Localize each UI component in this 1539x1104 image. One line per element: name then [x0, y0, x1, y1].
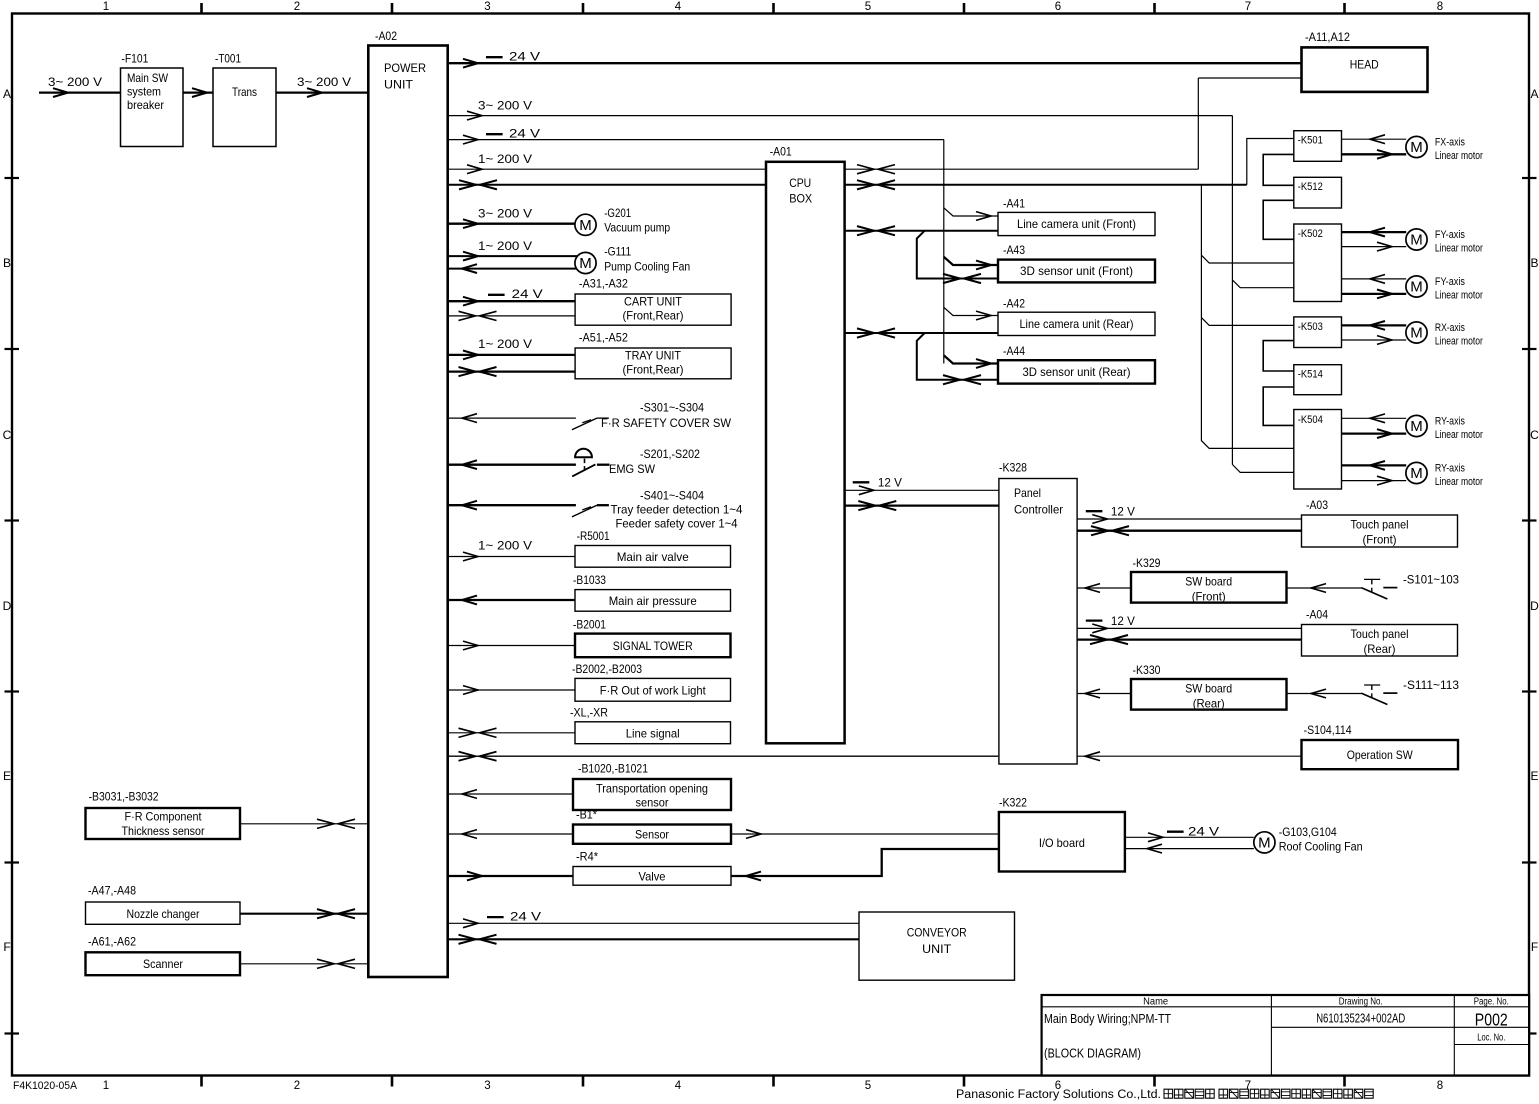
- amp K514: [1294, 365, 1342, 395]
- svg-text:3: 3: [484, 1, 490, 13]
- wire cart unit signal: [448, 315, 575, 317]
- ruler column ticks top: [200, 3, 203, 15]
- riser vertical 1198 to HEAD: [1197, 78, 1199, 169]
- svg-text:6: 6: [1055, 1, 1061, 13]
- svg-text:(Front): (Front): [1363, 532, 1397, 546]
- wire line signal: [448, 732, 575, 734]
- wire thickness sensor to A02: [240, 823, 368, 825]
- bus vertical 1232 3~200V: [1231, 116, 1233, 465]
- svg-text:-A51,-A52: -A51,-A52: [579, 331, 628, 345]
- wire power rail A02 to CPU box: [448, 184, 766, 186]
- switch S201 S202 emergency stop: [575, 449, 592, 457]
- svg-text:(Front,Rear): (Front,Rear): [623, 309, 684, 323]
- wire K503 to K514 chain: [1263, 341, 1294, 371]
- svg-text:M: M: [1410, 279, 1423, 296]
- wire CPU branch to A44: [917, 333, 998, 380]
- wire K514 to K504 chain: [1263, 387, 1294, 425]
- wire 1~200V to tray unit: [448, 354, 575, 356]
- svg-text:A: A: [1530, 87, 1538, 101]
- svg-text:3~ 200 V: 3~ 200 V: [478, 99, 532, 113]
- svg-text:-B3031,-B3032: -B3031,-B3032: [89, 790, 159, 804]
- amp K512: [1294, 177, 1342, 208]
- svg-text:SW board: SW board: [1185, 575, 1232, 589]
- wire CPU branch to A43: [917, 231, 998, 279]
- svg-text:M: M: [579, 217, 592, 234]
- svg-text:RY-axis: RY-axis: [1435, 462, 1465, 474]
- svg-text:CPU: CPU: [789, 176, 811, 190]
- wire 12V to touch panel front: [1077, 518, 1301, 520]
- motor G103 G104 roof cooling fan: [1254, 832, 1275, 853]
- svg-text:F·R SAFETY COVER SW: F·R SAFETY COVER SW: [601, 416, 732, 430]
- wire transportation opening sensor: [448, 793, 573, 795]
- svg-text:Line signal: Line signal: [626, 726, 680, 740]
- svg-text:-S301~-S304: -S301~-S304: [640, 401, 704, 415]
- wire bus1201 branch to K502: [1201, 255, 1293, 263]
- svg-text:Scanner: Scanner: [143, 957, 183, 971]
- svg-text:3~ 200 V: 3~ 200 V: [48, 75, 102, 89]
- svg-text:E: E: [1530, 769, 1538, 783]
- amp K501: [1294, 131, 1342, 162]
- svg-text:3D sensor unit (Rear): 3D sensor unit (Rear): [1023, 365, 1131, 379]
- svg-text:-K502: -K502: [1298, 228, 1323, 240]
- svg-text:-A31,-A32: -A31,-A32: [579, 276, 628, 290]
- svg-text:Roof Cooling Fan: Roof Cooling Fan: [1279, 839, 1363, 853]
- svg-text:24 V: 24 V: [509, 127, 540, 141]
- svg-text:2: 2: [294, 1080, 300, 1092]
- svg-text:-K504: -K504: [1298, 414, 1323, 426]
- svg-text:-B2002,-B2003: -B2002,-B2003: [572, 662, 642, 676]
- svg-text:B: B: [3, 256, 11, 270]
- svg-text:HEAD: HEAD: [1350, 57, 1379, 71]
- wire A02 to panel controller bottom rail: [448, 755, 999, 757]
- wire 24V branch to A41: [944, 208, 998, 216]
- wire safety cover SW: [448, 417, 576, 419]
- wire riser 1247 to K501: [1247, 139, 1294, 185]
- svg-text:-B1*: -B1*: [576, 808, 597, 822]
- svg-text:M: M: [579, 255, 592, 272]
- motor FY-axis linear motor lower: [1342, 278, 1407, 280]
- svg-text:FX-axis: FX-axis: [1435, 136, 1465, 148]
- svg-text:-S101~103: -S101~103: [1403, 572, 1459, 586]
- svg-text:(BLOCK DIAGRAM): (BLOCK DIAGRAM): [1044, 1046, 1141, 1060]
- wire bus1232 branch to K504: [1232, 465, 1293, 473]
- svg-text:SW board: SW board: [1185, 682, 1232, 696]
- svg-text:Pump Cooling Fan: Pump Cooling Fan: [604, 259, 690, 273]
- wire tray unit signal: [448, 370, 575, 372]
- motor G111 pump cooling fan: [575, 252, 596, 273]
- svg-text:Panasonic Factory Solutions Co: Panasonic Factory Solutions Co.,Ltd.: [956, 1089, 1161, 1101]
- svg-text:Panel: Panel: [1014, 486, 1041, 500]
- bus vertical 944 24V camera units: [943, 140, 945, 364]
- svg-text:-A04: -A04: [1306, 608, 1328, 622]
- svg-text:Operation SW: Operation SW: [1347, 748, 1414, 762]
- wire panel controller to SW board front: [1077, 587, 1131, 589]
- wire CPU to HEAD riser link: [845, 168, 1199, 170]
- svg-text:B: B: [1530, 256, 1538, 270]
- svg-text:D: D: [3, 599, 12, 613]
- wire 3~200V from A02 to K-unit bus: [448, 115, 1233, 117]
- wire valve R4*: [448, 875, 573, 877]
- svg-text:Main air pressure: Main air pressure: [609, 594, 697, 608]
- svg-text:12 V: 12 V: [878, 475, 902, 489]
- motor RY-axis linear motor upper: [1342, 417, 1407, 419]
- svg-text:-K328: -K328: [999, 461, 1027, 475]
- svg-text:-K329: -K329: [1133, 556, 1161, 570]
- svg-text:(Front,Rear): (Front,Rear): [623, 363, 684, 377]
- wire 24V branch to A44: [944, 355, 998, 363]
- amp K504: [1294, 410, 1342, 490]
- svg-text:Main air valve: Main air valve: [617, 550, 689, 564]
- wire roof fan return: [1125, 848, 1254, 850]
- svg-text:-S401~-S404: -S401~-S404: [640, 489, 704, 503]
- motor FX-axis linear motor: [1342, 138, 1407, 140]
- svg-text:3: 3: [484, 1080, 490, 1092]
- svg-text:UNIT: UNIT: [384, 77, 414, 91]
- svg-text:FY-axis: FY-axis: [1435, 229, 1465, 241]
- wire bus1201 branch to K503: [1201, 318, 1293, 326]
- wire F101 to T001: [183, 91, 213, 93]
- svg-text:12 V: 12 V: [1111, 505, 1135, 519]
- svg-text:Trans: Trans: [232, 85, 257, 99]
- svg-text:(Front): (Front): [1192, 590, 1226, 604]
- wire 24V branch to A42: [944, 307, 998, 315]
- switch S401-S404 tray feeder: [572, 505, 597, 517]
- svg-text:Touch panel: Touch panel: [1351, 517, 1409, 531]
- wire T001 to A02 3~200V: [276, 91, 368, 93]
- wire power rail CPU to K501: [845, 184, 1247, 186]
- wire touch panel front signal: [1077, 530, 1301, 532]
- svg-text:-K514: -K514: [1298, 368, 1323, 380]
- svg-text:Line camera unit (Rear): Line camera unit (Rear): [1020, 317, 1134, 331]
- wire valve to IO board: [731, 849, 999, 876]
- svg-text:-A41: -A41: [1003, 197, 1025, 211]
- svg-text:M: M: [1410, 418, 1423, 435]
- svg-text:3D sensor unit (Front): 3D sensor unit (Front): [1020, 264, 1133, 278]
- switch S101-103: [1361, 588, 1387, 599]
- svg-text:7: 7: [1245, 1, 1251, 13]
- svg-text:-K330: -K330: [1133, 663, 1161, 677]
- svg-text:-A03: -A03: [1306, 498, 1328, 512]
- svg-text:Linear motor: Linear motor: [1435, 290, 1483, 302]
- svg-text:M: M: [1410, 139, 1423, 156]
- svg-text:Vacuum pump: Vacuum pump: [604, 221, 670, 235]
- svg-text:POWER: POWER: [384, 61, 426, 75]
- svg-text:Name: Name: [1143, 996, 1168, 1007]
- svg-text:Controller: Controller: [1014, 503, 1063, 517]
- svg-text:Linear motor: Linear motor: [1435, 429, 1483, 441]
- svg-text:-A61,-A62: -A61,-A62: [88, 934, 136, 948]
- svg-text:3~ 200 V: 3~ 200 V: [478, 207, 532, 221]
- ruler row ticks right: [1522, 177, 1537, 179]
- svg-text:-A43: -A43: [1003, 243, 1025, 257]
- svg-text:E: E: [3, 769, 11, 783]
- svg-text:(Rear): (Rear): [1364, 642, 1396, 656]
- svg-text:BOX: BOX: [789, 191, 812, 205]
- svg-text:3~ 200 V: 3~ 200 V: [297, 75, 351, 89]
- svg-text:Linear motor: Linear motor: [1435, 476, 1483, 488]
- svg-text:5: 5: [865, 1, 871, 13]
- svg-text:2: 2: [294, 1, 300, 13]
- svg-text:N610135234+002AD: N610135234+002AD: [1316, 1012, 1405, 1026]
- wire 24V branch to A43: [944, 257, 998, 265]
- wire main air pressure sensor: [448, 599, 575, 601]
- svg-text:EMG SW: EMG SW: [609, 462, 656, 476]
- svg-text:M: M: [1410, 325, 1423, 342]
- svg-text:TRAY UNIT: TRAY UNIT: [625, 348, 682, 362]
- wire SW board rear to S111: [1287, 693, 1362, 695]
- svg-text:F·R Out of work Light: F·R Out of work Light: [600, 683, 707, 697]
- svg-text:Nozzle changer: Nozzle changer: [127, 907, 200, 921]
- wire touch panel rear signal: [1077, 638, 1301, 640]
- svg-text:-F101: -F101: [121, 52, 148, 66]
- wire out of work light: [448, 689, 575, 691]
- wire sensor B1*: [448, 833, 573, 835]
- ruler column ticks bottom: [200, 1076, 203, 1087]
- svg-text:-G111: -G111: [604, 245, 631, 259]
- svg-text:M: M: [1258, 835, 1271, 852]
- svg-text:CONVEYOR: CONVEYOR: [907, 926, 967, 940]
- svg-text:4: 4: [675, 1080, 682, 1092]
- svg-text:8: 8: [1437, 1, 1443, 13]
- svg-text:24 V: 24 V: [1188, 824, 1219, 838]
- wire nozzle changer to A02: [240, 913, 368, 915]
- svg-text:A: A: [3, 87, 11, 101]
- svg-text:UNIT: UNIT: [922, 942, 952, 956]
- bus vertical 1201 servo amps: [1201, 185, 1293, 449]
- svg-text:C: C: [1530, 428, 1539, 442]
- svg-text:-S111~113: -S111~113: [1403, 678, 1459, 692]
- wire 12V to touch panel rear: [1077, 627, 1301, 629]
- svg-text:4: 4: [675, 1, 682, 13]
- wire K501 to K512 chain: [1263, 154, 1294, 185]
- wire G111 return: [448, 268, 578, 270]
- svg-text:Sensor: Sensor: [635, 827, 669, 841]
- svg-text:M: M: [1410, 232, 1423, 249]
- wire 1~200V to main air valve: [448, 556, 575, 558]
- svg-text:FY-axis: FY-axis: [1435, 276, 1465, 288]
- svg-text:-G103,G104: -G103,G104: [1279, 825, 1337, 839]
- svg-text:Page. No.: Page. No.: [1474, 996, 1509, 1007]
- svg-text:Feeder safety cover 1~4: Feeder safety cover 1~4: [616, 517, 738, 531]
- wire EMG SW: [448, 464, 576, 466]
- wire bus1232 branch to K502: [1232, 280, 1293, 288]
- svg-text:-G201: -G201: [604, 206, 631, 220]
- svg-text:-S104,114: -S104,114: [1304, 723, 1352, 737]
- wire CPU to A41 line camera front: [845, 230, 998, 232]
- wire 24V IO board to roof fan: [1125, 836, 1254, 838]
- svg-text:system: system: [127, 85, 161, 99]
- svg-text:F: F: [3, 940, 10, 954]
- motor G201 vacuum pump: [575, 214, 596, 235]
- svg-text:8: 8: [1437, 1080, 1443, 1092]
- motor FY-axis linear motor upper: [1342, 231, 1407, 233]
- wire signal tower: [448, 645, 575, 647]
- svg-text:-A01: -A01: [770, 145, 792, 159]
- svg-text:F: F: [1531, 940, 1538, 954]
- svg-text:Loc. No.: Loc. No.: [1477, 1032, 1505, 1043]
- svg-text:-K512: -K512: [1298, 181, 1323, 193]
- wire K512 to K502 chain: [1263, 200, 1294, 239]
- svg-text:-T001: -T001: [215, 52, 241, 66]
- svg-text:Main Body Wiring;NPM-TT: Main Body Wiring;NPM-TT: [1044, 1012, 1171, 1026]
- amp K502: [1294, 224, 1342, 302]
- wire 3-phase 200V mains input: [39, 91, 121, 93]
- svg-text:5: 5: [865, 1080, 871, 1092]
- svg-text:RY-axis: RY-axis: [1435, 415, 1465, 427]
- switch S301-S304 safety cover: [572, 418, 597, 430]
- wire tray feeder detection SW: [448, 504, 576, 506]
- svg-text:24 V: 24 V: [509, 50, 540, 64]
- svg-text:P002: P002: [1475, 1010, 1508, 1030]
- wire SW board front to S101: [1287, 587, 1362, 589]
- svg-text:-A42: -A42: [1003, 296, 1025, 310]
- svg-text:-K503: -K503: [1298, 321, 1323, 333]
- svg-text:-A11,A12: -A11,A12: [1305, 30, 1350, 44]
- svg-text:breaker: breaker: [127, 98, 164, 112]
- wire operation SW to panel controller: [1077, 755, 1301, 757]
- conveyor unit box: [859, 912, 1015, 980]
- svg-text:Drawing No.: Drawing No.: [1339, 996, 1383, 1007]
- wire 24V from A02 to camera bus: [448, 139, 944, 141]
- svg-text:1: 1: [103, 1080, 109, 1092]
- svg-text:-B2001: -B2001: [573, 618, 606, 632]
- motor RY-axis linear motor lower: [1342, 464, 1407, 466]
- svg-text:-A47,-A48: -A47,-A48: [88, 884, 136, 898]
- amp K503: [1294, 317, 1342, 348]
- wire 12V CPU to panel controller: [845, 489, 999, 491]
- svg-text:12 V: 12 V: [1111, 614, 1135, 628]
- wire panel controller to SW board rear: [1077, 693, 1131, 695]
- svg-text:-XL,-XR: -XL,-XR: [570, 705, 608, 719]
- svg-text:Tray feeder detection 1~4: Tray feeder detection 1~4: [611, 503, 743, 517]
- title block: [1042, 995, 1530, 1076]
- svg-text:sensor: sensor: [636, 796, 669, 810]
- svg-text:1~ 200 V: 1~ 200 V: [478, 152, 532, 166]
- svg-text:Linear motor: Linear motor: [1435, 150, 1483, 162]
- svg-text:D: D: [1530, 599, 1539, 613]
- svg-text:Linear motor: Linear motor: [1435, 336, 1483, 348]
- wire conveyor unit signal: [448, 938, 859, 940]
- wire 3~200V to G201: [448, 223, 576, 225]
- svg-text:F4K1020-05A: F4K1020-05A: [13, 1080, 78, 1092]
- svg-text:-B1020,-B1021: -B1020,-B1021: [578, 762, 648, 776]
- svg-text:Line camera unit (Front): Line camera unit (Front): [1017, 217, 1136, 231]
- svg-text:C: C: [3, 428, 12, 442]
- svg-text:Valve: Valve: [639, 870, 666, 884]
- svg-text:-B1033: -B1033: [573, 573, 606, 587]
- svg-text:-K322: -K322: [999, 796, 1027, 810]
- svg-text:-R5001: -R5001: [577, 529, 610, 543]
- svg-text:Main SW: Main SW: [127, 71, 169, 85]
- svg-text:1~ 200 V: 1~ 200 V: [478, 239, 532, 253]
- wire scanner to A02: [240, 963, 368, 965]
- wire 1~200V from A02 to CPU box: [448, 168, 766, 170]
- wire 24V from A02 to HEAD: [448, 62, 1301, 64]
- motor RX-axis linear motor: [1342, 324, 1407, 326]
- wire CPU to A42 line camera rear: [845, 332, 998, 334]
- wire 24V to cart unit: [448, 300, 575, 302]
- wire CPU to panel controller signal: [845, 505, 999, 507]
- svg-text:-S201,-S202: -S201,-S202: [640, 447, 700, 461]
- svg-text:24 V: 24 V: [510, 910, 541, 924]
- ruler row ticks left: [5, 177, 20, 179]
- svg-text:M: M: [1410, 465, 1423, 482]
- svg-text:Transportation opening: Transportation opening: [596, 782, 708, 796]
- svg-text:(Rear): (Rear): [1193, 697, 1225, 711]
- svg-text:-K501: -K501: [1298, 134, 1323, 146]
- svg-text:1~ 200 V: 1~ 200 V: [478, 539, 532, 553]
- svg-text:CART UNIT: CART UNIT: [624, 294, 683, 308]
- svg-text:-A02: -A02: [375, 29, 397, 43]
- svg-text:RX-axis: RX-axis: [1435, 322, 1465, 334]
- svg-text:Touch panel: Touch panel: [1351, 627, 1409, 641]
- svg-text:1~ 200 V: 1~ 200 V: [478, 337, 532, 351]
- svg-text:-A44: -A44: [1003, 344, 1025, 358]
- svg-text:F·R Component: F·R Component: [125, 810, 203, 824]
- svg-text:Linear motor: Linear motor: [1435, 243, 1483, 255]
- svg-text:-R4*: -R4*: [576, 850, 598, 864]
- svg-text:Thickness sensor: Thickness sensor: [122, 824, 205, 838]
- wire sensor to IO board: [731, 833, 999, 835]
- svg-text:SIGNAL TOWER: SIGNAL TOWER: [613, 639, 693, 653]
- svg-text:1: 1: [103, 1, 109, 13]
- wire 24V to conveyor unit: [448, 922, 859, 924]
- svg-text:I/O board: I/O board: [1039, 836, 1085, 850]
- switch S111-113: [1361, 693, 1387, 704]
- svg-text:24 V: 24 V: [512, 287, 543, 301]
- wire 1~200V to G111 feed: [448, 255, 578, 257]
